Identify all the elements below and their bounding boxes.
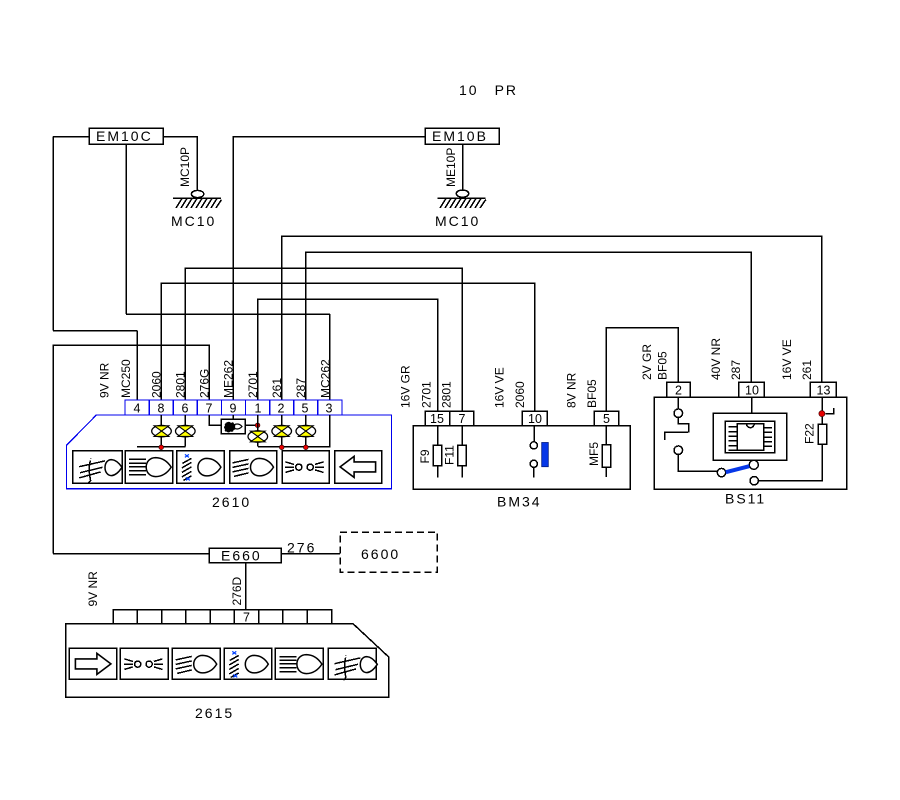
svg-text:F11: F11	[443, 445, 457, 465]
connector 2615 outline	[66, 624, 389, 698]
IC module middle box	[725, 421, 775, 452]
icon box fog light (2610)	[73, 451, 122, 484]
svg-text:9V NR: 9V NR	[86, 571, 100, 607]
wire pilot box to pin1 line	[245, 424, 257, 426]
wire BS11 pin 2 internal	[677, 397, 679, 409]
svg-text:276G: 276G	[198, 369, 212, 398]
wire 2610 pin 9 to pilot box	[232, 415, 234, 419]
wire lamp bus right (L3-L4-L5-pin3)	[258, 415, 330, 447]
svg-text:9: 9	[230, 402, 237, 416]
svg-text:3: 3	[326, 402, 333, 416]
contact circle top (BS11 pin 2)	[674, 409, 683, 418]
icon box main beam (2610)	[230, 451, 277, 484]
wire lamp L2 down	[184, 437, 186, 447]
svg-text:16V VE: 16V VE	[493, 367, 507, 408]
fuse MF5	[587, 442, 611, 468]
svg-text:ME10P: ME10P	[444, 148, 458, 187]
wire EM10C to ground	[163, 137, 197, 191]
svg-text:ME262: ME262	[222, 360, 236, 398]
svg-text:261: 261	[270, 378, 284, 398]
wire BS11 pin 10 internal	[751, 397, 753, 413]
splice box E660	[209, 548, 281, 564]
wire BM34 pin 5 internal	[605, 426, 607, 478]
svg-text:8: 8	[158, 402, 165, 416]
svg-text:4: 4	[134, 402, 141, 416]
ground MC10 right	[438, 190, 486, 208]
wire lever to F22	[758, 444, 822, 481]
svg-text:2701: 2701	[420, 381, 434, 408]
svg-text:2615: 2615	[195, 705, 234, 721]
switch contact circles BM34	[530, 442, 537, 449]
svg-text:F22: F22	[803, 423, 817, 444]
fuse F11	[443, 445, 467, 466]
svg-text:13: 13	[817, 384, 831, 398]
icon box dipped beam (2615)	[224, 648, 272, 679]
junction dot L1	[159, 445, 164, 450]
probe tick at F22	[826, 408, 834, 413]
wire lamp L1 down	[160, 437, 162, 447]
wire net 2801: 2610 pin 6 to BM34 pin 7	[185, 268, 462, 411]
BM34 pin 7 box	[450, 411, 474, 426]
svg-text:2701: 2701	[246, 371, 260, 398]
wire net 287: 2610 pin 5 to BS11 pin 10	[306, 252, 752, 400]
connector 2615 pin row	[113, 610, 332, 624]
splice box EM10B	[425, 128, 499, 144]
svg-text:287: 287	[294, 378, 308, 398]
ECU BM34 box	[413, 426, 630, 490]
svg-text:MC262: MC262	[319, 359, 333, 398]
svg-text:16V VE: 16V VE	[780, 339, 794, 380]
svg-text:MC10: MC10	[171, 213, 216, 229]
wire net MC250 horizontal	[53, 330, 137, 332]
wire 2610 pin 5 to lamp	[305, 415, 307, 426]
wire 2610 pin 1 down	[257, 415, 259, 431]
svg-text:EM10B: EM10B	[432, 128, 488, 144]
BM34 pin 10 box	[522, 411, 547, 426]
svg-text:BF05: BF05	[656, 351, 670, 380]
wire net MC262 riser from EM10C	[125, 144, 127, 314]
wire lamp L4 down	[281, 437, 283, 447]
junction dot L4	[279, 445, 284, 450]
fuse F22	[803, 423, 827, 444]
wire E660 down to 2615 pin 7	[245, 563, 247, 610]
wire lamp L5 down	[305, 437, 307, 447]
wire EM10B to ground	[462, 144, 464, 190]
connector 2610 outline	[67, 415, 392, 489]
wire 2610 pin 6 to lamp	[184, 415, 186, 426]
svg-text:10: 10	[528, 412, 542, 426]
svg-text:9V NR: 9V NR	[98, 362, 112, 398]
wire 2610 pin 2 to lamp	[281, 415, 283, 426]
lever pivot circle left	[717, 468, 725, 476]
wire net 2060: 2610 pin 8 to BM34 pin 10	[161, 283, 534, 411]
lamp L4 (2610 pin 2)	[272, 425, 292, 436]
svg-text:5: 5	[603, 412, 610, 426]
svg-text:MC10P: MC10P	[178, 147, 192, 187]
lamp L1 (2610 pin 8)	[152, 425, 172, 436]
svg-text:15: 15	[430, 412, 444, 426]
wire EM10C left stub	[53, 136, 89, 138]
wire contact to lever	[678, 455, 717, 472]
wire E660 to 6600	[281, 553, 340, 555]
svg-text:7: 7	[206, 402, 213, 416]
svg-text:BM34: BM34	[497, 494, 542, 510]
pilot lamp box (2610)	[221, 419, 245, 434]
svg-text:F9: F9	[418, 449, 432, 463]
svg-text:BS11: BS11	[725, 491, 766, 507]
wire net BF05: BM34 pin 5 to BS11 pin 2	[606, 328, 678, 411]
IC pin ticks right	[764, 428, 773, 447]
svg-text:16V GR: 16V GR	[399, 365, 413, 408]
BS11 pin 2 box	[667, 382, 690, 397]
junction dot F22 (red)	[819, 411, 825, 417]
wire net MC250 drop to 2610 pin 4	[136, 331, 138, 401]
lamp L5 (2610 pin 5)	[296, 425, 316, 436]
junction dot L5	[304, 445, 309, 450]
svg-text:10 PR: 10 PR	[459, 82, 518, 98]
svg-text:2V GR: 2V GR	[640, 344, 654, 380]
component 6600 (dashed box)	[340, 532, 437, 572]
lever contact circle right	[749, 460, 758, 469]
BM34 pin 5 box	[594, 411, 619, 426]
svg-text:2: 2	[675, 384, 682, 398]
svg-text:1: 1	[255, 402, 262, 416]
wire BM34 pin 7 internal	[461, 426, 463, 478]
svg-text:8V NR: 8V NR	[565, 372, 579, 408]
fuse F9	[418, 445, 442, 466]
svg-text:276D: 276D	[230, 576, 244, 605]
svg-text:2060: 2060	[150, 371, 164, 398]
svg-text:40V NR: 40V NR	[709, 338, 723, 380]
wire net MC262 bus	[126, 313, 330, 315]
icon box direction arrow (2615)	[69, 648, 116, 679]
icon box direction arrow (2610)	[335, 451, 382, 484]
svg-text:E660: E660	[221, 548, 262, 564]
svg-text:287: 287	[729, 360, 743, 380]
wire net ME262 EM10B to 2610 pin 9	[233, 137, 425, 401]
svg-text:2060: 2060	[513, 381, 527, 408]
wire net 276: riser to 2610 pin 7	[53, 345, 209, 554]
svg-text:2801: 2801	[174, 371, 188, 398]
wire lamp bus left (pin4-L1-L2)	[137, 446, 185, 448]
wire net 261: 2610 pin 2 to BS11 pin 13	[282, 236, 822, 400]
svg-text:7: 7	[459, 412, 466, 426]
IC module outer box (BS11)	[713, 413, 787, 460]
wire net MC250 riser	[52, 137, 54, 331]
lamp L3 (2610 pin 1)	[248, 431, 268, 442]
ground MC10 left	[173, 190, 222, 208]
wire lamp L3 down	[257, 442, 259, 446]
svg-text:6: 6	[182, 402, 189, 416]
wire BM34 pin 15 internal	[437, 426, 439, 478]
svg-text:MF5: MF5	[587, 442, 601, 466]
BS11 pin 10 box	[739, 382, 765, 397]
contact circle bottom (BS11 pin 2)	[674, 446, 683, 455]
switch bracket (BS11)	[665, 418, 689, 441]
wire 2610 pin 8 to lamp	[160, 415, 162, 426]
svg-text:MC10: MC10	[435, 213, 480, 229]
wire net MC262 drop to 2610 pin 3	[329, 314, 331, 400]
icon box side marker (2610)	[282, 451, 329, 484]
BS11 pin 13 box	[810, 382, 836, 397]
lever arm (blue)	[726, 466, 750, 472]
BM34 pin 15 box	[425, 411, 449, 426]
wire 2610 pin 7 to pilot box	[209, 415, 221, 425]
relay unit BS11 box	[654, 397, 847, 489]
svg-text:5: 5	[302, 402, 309, 416]
icon box tail light (2615)	[275, 648, 323, 679]
svg-text:EM10C: EM10C	[96, 128, 153, 144]
connector 2610 pin row	[125, 400, 342, 415]
svg-text:10: 10	[745, 384, 759, 398]
IC pin ticks left	[729, 427, 738, 450]
junction dot pin1/pilot	[255, 423, 260, 428]
svg-text:BF05: BF05	[585, 379, 599, 408]
svg-text:MC250: MC250	[119, 359, 133, 398]
icon box side marker (2615)	[120, 648, 168, 679]
splice box EM10C	[89, 128, 163, 144]
svg-text:2801: 2801	[440, 381, 454, 408]
svg-text:261: 261	[800, 360, 814, 380]
wire F22 to pin 13	[821, 397, 823, 424]
svg-text:7: 7	[243, 611, 250, 625]
lever lower contact circle	[750, 477, 758, 485]
icon box main beam (2615)	[172, 648, 220, 679]
svg-text:2: 2	[278, 402, 285, 416]
svg-text:2610: 2610	[212, 494, 251, 510]
icon box fog light (2615)	[328, 648, 377, 680]
switch actuator (blue) BM34	[542, 443, 549, 467]
svg-text:6600: 6600	[361, 546, 400, 562]
IC chip box	[737, 424, 763, 450]
wire BM34 pin 10 internal	[533, 426, 535, 478]
lamp L2 (2610 pin 6)	[176, 425, 196, 436]
icon box dipped beam (2610)	[177, 451, 224, 484]
icon box tail light (2610)	[125, 451, 172, 484]
wire net 276 to splice E660	[53, 553, 209, 555]
wire net 2701: 2610 pin 1 to BM34 pin 15	[258, 299, 438, 411]
